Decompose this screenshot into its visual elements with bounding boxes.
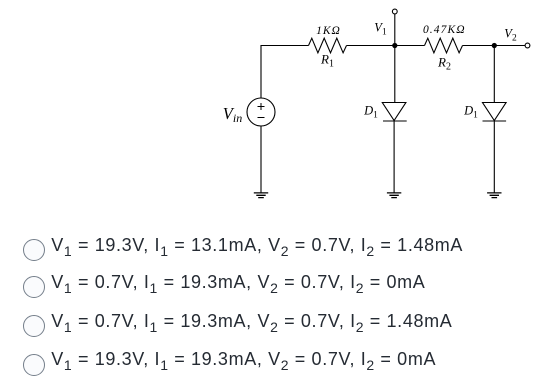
node V1 (junction dot) bbox=[392, 43, 397, 48]
option A bbox=[23, 239, 463, 261]
plus sign of Vin bbox=[258, 103, 265, 110]
wire: node V2 down to diode D1b bbox=[493, 46, 495, 103]
diode D1 (left) bbox=[382, 103, 406, 121]
resistor R2 bbox=[425, 38, 463, 53]
wire: node V1 to R2 bbox=[395, 45, 425, 47]
resistor R1 bbox=[309, 38, 347, 53]
svg-text:0.47KΩ: 0.47KΩ bbox=[423, 24, 466, 36]
option B bbox=[23, 276, 426, 298]
voltage source Vin bbox=[247, 98, 275, 126]
wire: node V1 down to diode D1a bbox=[394, 46, 396, 103]
svg-text:D1: D1 bbox=[463, 104, 478, 121]
ground (below Vin) bbox=[254, 193, 268, 198]
svg-text:R1: R1 bbox=[320, 52, 334, 70]
wire: top-left corner from Vin to R1 bbox=[261, 46, 309, 99]
svg-text:D1: D1 bbox=[363, 104, 378, 121]
wire: node V1 up to terminal bbox=[394, 14, 396, 46]
option D bbox=[23, 354, 436, 376]
terminal at V1 (open circle) bbox=[392, 9, 397, 14]
svg-text:1KΩ: 1KΩ bbox=[316, 25, 341, 37]
wire: diode D1b to ground bbox=[493, 121, 495, 193]
ground (below right diode) bbox=[487, 193, 501, 198]
svg-text:R2: R2 bbox=[437, 55, 451, 73]
minus sign of Vin bbox=[258, 117, 265, 119]
wire: diode D1a to ground bbox=[393, 121, 395, 193]
wire: node V2 to output terminal bbox=[494, 45, 525, 47]
svg-text:V2: V2 bbox=[504, 27, 517, 44]
wire: Vin bottom to ground bbox=[260, 126, 262, 193]
node V2 (junction dot) bbox=[492, 43, 497, 48]
svg-text:Vin: Vin bbox=[223, 104, 242, 125]
terminal at V2 (open circle) bbox=[525, 43, 530, 48]
option C bbox=[23, 315, 452, 337]
wire: R2 to node V2 bbox=[463, 45, 495, 47]
circuit schematic bbox=[0, 0, 535, 215]
ground (below left diode) bbox=[387, 193, 401, 198]
wire: R1 to node V1 bbox=[347, 45, 395, 47]
diode D1 (right) bbox=[483, 103, 507, 121]
svg-text:V1: V1 bbox=[374, 21, 387, 38]
